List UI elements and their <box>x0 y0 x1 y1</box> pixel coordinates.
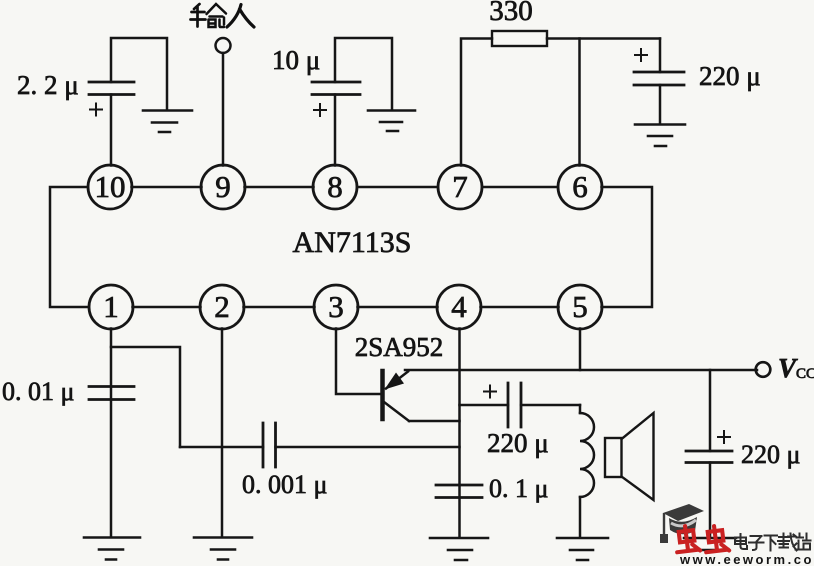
wire pin 1 branch to C5 <box>111 347 180 447</box>
svg-text:0. 001 μ: 0. 001 μ <box>242 470 327 499</box>
value label 0.1u <box>489 474 548 503</box>
svg-text:7: 7 <box>452 169 468 204</box>
capacitor C2 10u <box>312 38 392 166</box>
op-amp U1 AN7113S IC body <box>50 187 652 307</box>
watermark text dianzi xiazaizhan <box>735 534 811 551</box>
svg-text:VCC: VCC <box>778 353 814 383</box>
pin 4 <box>437 285 481 329</box>
svg-text:10 μ: 10 μ <box>272 45 320 75</box>
svg-text:AN7113S: AN7113S <box>293 226 412 259</box>
wire C1 top to ground run <box>111 38 167 110</box>
value label 220u right <box>741 440 800 469</box>
ground G5 <box>194 538 252 560</box>
value label 2.2u <box>17 70 79 100</box>
wire IC left edge <box>50 187 89 307</box>
capacitor C3 220u top right <box>634 39 684 125</box>
value label 0.001u <box>242 470 327 499</box>
watermark graduation cap icon <box>660 504 704 543</box>
wire pin 3 to base <box>336 329 381 395</box>
pin 9 <box>201 165 245 209</box>
ground G2 <box>368 111 415 132</box>
ground G6 <box>430 538 488 560</box>
ground G8 <box>684 538 736 550</box>
transistor Q1 2SA952 <box>383 371 460 421</box>
capacitor C1 2.2u <box>89 38 167 166</box>
svg-text:2: 2 <box>214 289 230 324</box>
plus mark C8 <box>718 431 730 443</box>
svg-text:220 μ: 220 μ <box>699 61 761 91</box>
wire top row pin links <box>132 186 559 189</box>
svg-text:1: 1 <box>103 289 119 324</box>
pin 3 <box>314 285 358 329</box>
inductor L1 <box>580 405 594 537</box>
value label 220u output <box>487 428 549 458</box>
svg-text:4: 4 <box>451 289 467 324</box>
svg-text:8: 8 <box>327 169 343 204</box>
svg-text:330: 330 <box>489 0 533 27</box>
wire pin 1 drop <box>110 329 113 538</box>
label input (Chinese shu-ru) <box>191 4 255 27</box>
ground G4 <box>84 538 140 560</box>
pin 6 <box>558 165 602 209</box>
svg-text:10: 10 <box>95 169 126 204</box>
svg-text:2SA952: 2SA952 <box>355 332 444 362</box>
svg-text:2. 2 μ: 2. 2 μ <box>17 70 79 100</box>
plus mark C3 <box>635 49 647 61</box>
wire R1 left to pin 7 <box>461 39 492 166</box>
input terminal <box>216 38 231 166</box>
speaker SP <box>605 413 654 500</box>
wire IC right edge <box>602 187 653 307</box>
watermark red character chong 1 <box>674 525 700 554</box>
plus mark C2 <box>314 104 326 116</box>
plus mark C6 <box>484 386 496 398</box>
pin 7 <box>438 165 482 209</box>
watermark red character chong 2 <box>703 525 729 554</box>
value label 330 <box>489 0 533 27</box>
capacitor C4 0.01u <box>89 387 134 400</box>
ground G1 <box>143 111 192 133</box>
Vcc terminal <box>756 362 771 377</box>
wire input to pin 9 <box>222 53 225 166</box>
capacitor C7 0.1u <box>436 485 482 498</box>
label Vcc <box>778 353 814 383</box>
value label 0.01u <box>2 377 74 406</box>
svg-text:0. 01 μ: 0. 01 μ <box>2 377 74 406</box>
capacitor C8 220u right <box>686 370 732 538</box>
wire pin 2 drop <box>221 329 224 538</box>
wire C1 bottom to pin 10 <box>110 95 113 166</box>
svg-text:3: 3 <box>328 289 344 324</box>
plus mark C1 <box>90 104 102 116</box>
svg-text:6: 6 <box>572 169 588 204</box>
wire bottom row pin links <box>133 306 559 309</box>
pin 8 <box>313 165 357 209</box>
wire pin 4 drop <box>458 329 461 538</box>
pin 2 <box>200 285 244 329</box>
wire pin 5 drop to rail <box>579 329 582 371</box>
value label 10u <box>272 45 320 75</box>
pin 1 <box>89 285 133 329</box>
wire C2 bottom to pin 8 <box>334 95 337 166</box>
capacitor C6 220u output <box>460 383 581 427</box>
ground G3 <box>635 125 685 147</box>
resistor R1 330 <box>461 31 660 166</box>
svg-text:www.eeworm.com: www.eeworm.com <box>679 552 814 566</box>
capacitor C5 0.001u <box>180 423 460 467</box>
emitter with arrow <box>386 372 408 389</box>
svg-text:220 μ: 220 μ <box>487 428 549 458</box>
svg-text:9: 9 <box>215 169 231 204</box>
svg-text:220 μ: 220 μ <box>741 440 800 469</box>
svg-text:5: 5 <box>572 289 588 324</box>
wire C2 top to ground run <box>335 38 392 110</box>
ground G7 <box>557 538 608 560</box>
label 2SA952 <box>355 332 444 362</box>
value label 220u top right <box>699 61 761 91</box>
wire R1 right rail <box>547 37 660 40</box>
wire rail drop to pin 6 <box>578 39 581 166</box>
svg-text:0. 1 μ: 0. 1 μ <box>489 474 548 503</box>
pin 10 <box>88 165 132 209</box>
wire Vcc rail <box>405 369 757 372</box>
pin 5 <box>558 285 602 329</box>
collector <box>384 402 460 421</box>
IC label AN7113S <box>293 226 412 259</box>
watermark url text <box>679 552 814 566</box>
